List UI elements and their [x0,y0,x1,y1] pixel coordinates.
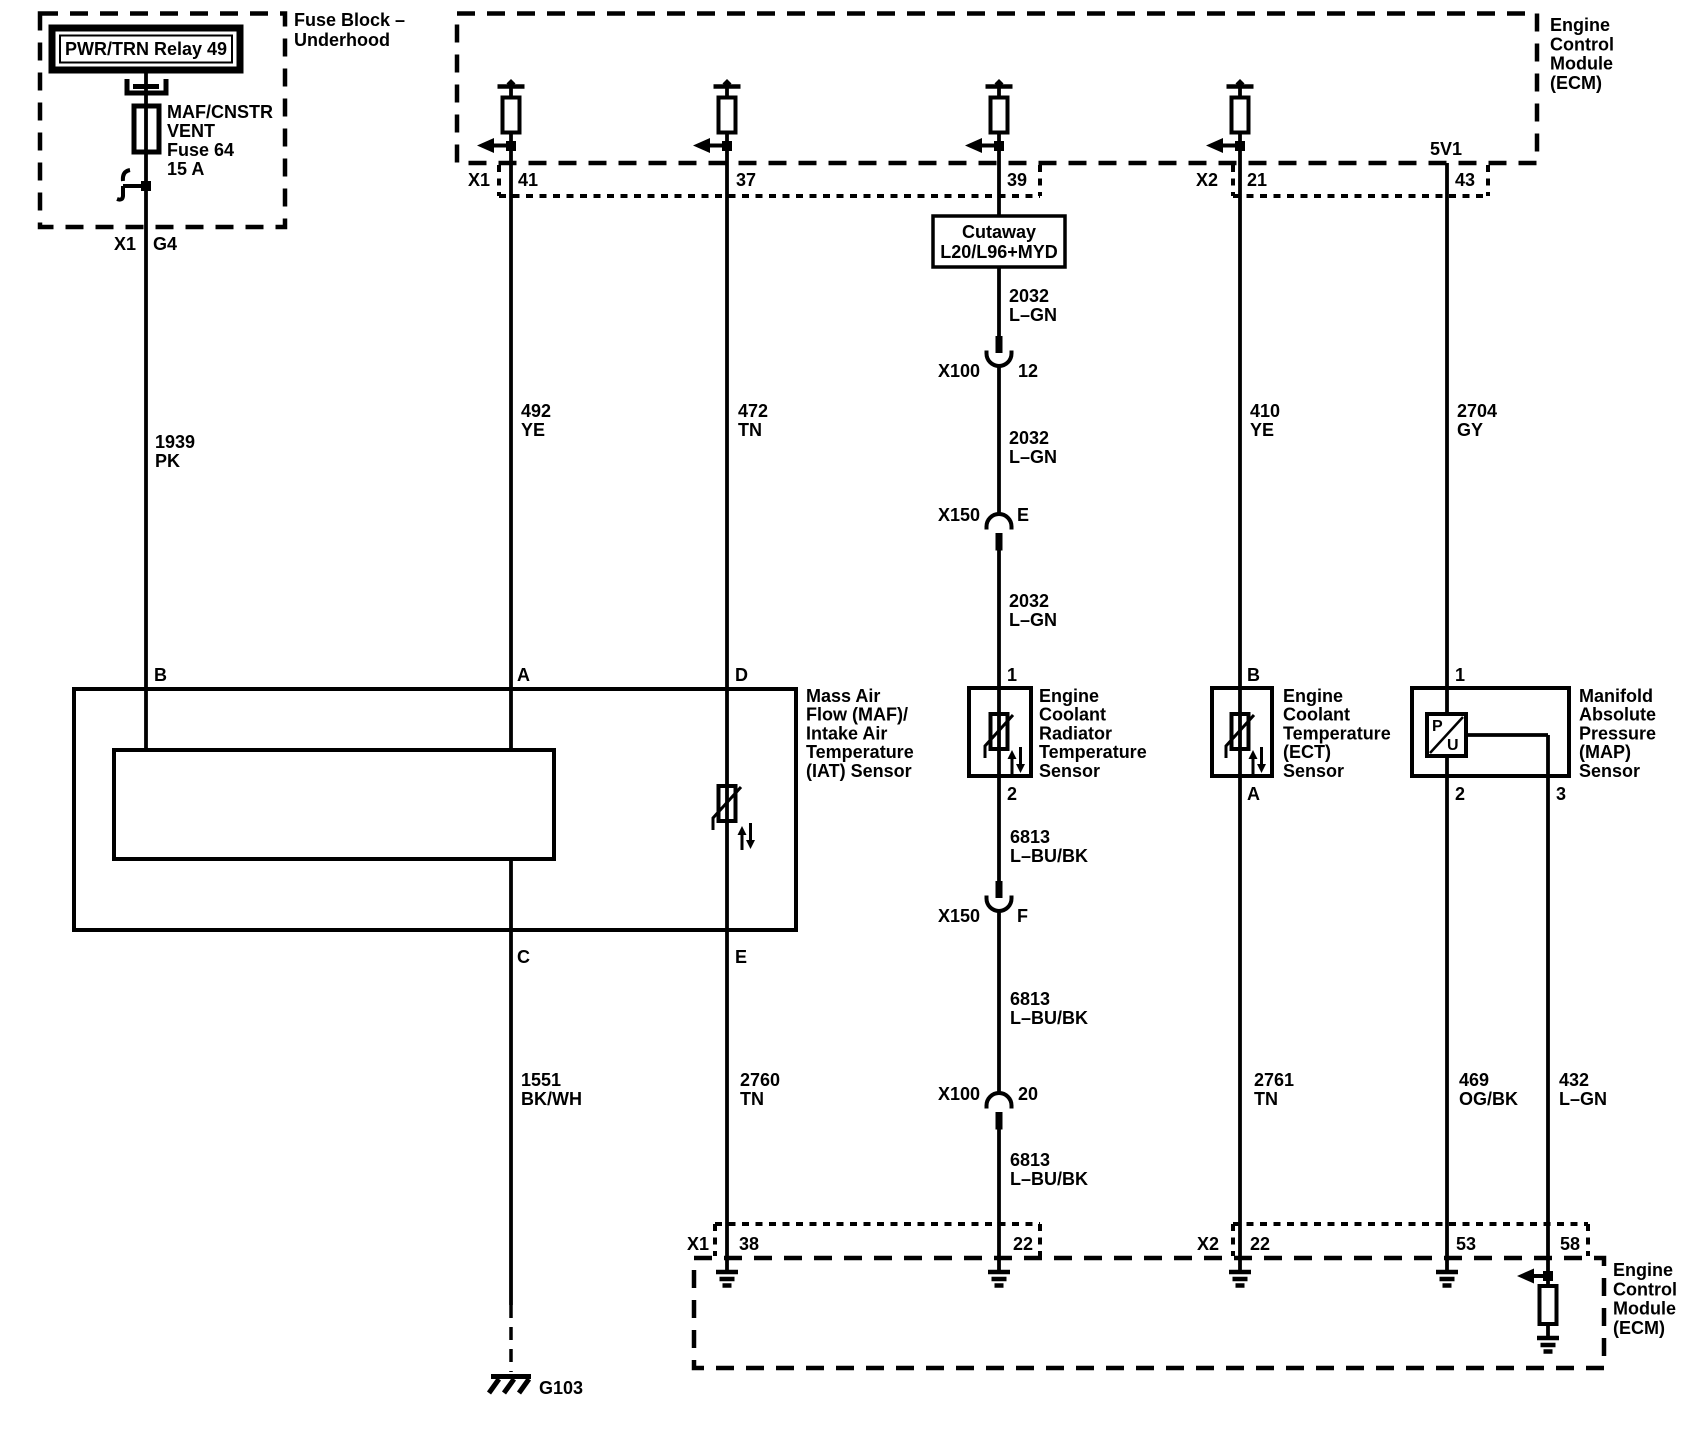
ECM top dashed box: Engine Control Module [457,14,1537,164]
wire 492 YE: ECM pin 41 to MAF pin A [509,200,513,750]
wire: MAP signal to pin 3 [1466,735,1548,776]
svg-text:TN: TN [740,1089,764,1109]
pin label 2 (MAP) [1455,784,1465,804]
wire: IAT element to MAF pin E exit [725,821,729,930]
label: MAF/CNSTR VENT Fuse 64 15 A [167,102,273,179]
label: Engine Control Module (ECM) top right [1550,15,1614,93]
svg-text:410: 410 [1250,401,1280,421]
ECM pin 58 junction dot [1543,1271,1553,1281]
svg-text:X2: X2 [1197,1234,1219,1254]
svg-text:38: 38 [739,1234,759,1254]
svg-text:X1: X1 [687,1234,709,1254]
wire label 2032 L-GN (3) [1009,591,1057,630]
relay switch contact [117,170,151,200]
svg-text:L–BU/BK: L–BU/BK [1010,1169,1088,1189]
svg-text:(IAT) Sensor: (IAT) Sensor [806,761,912,781]
wire label 1939 PK [155,432,195,471]
svg-text:(ECM): (ECM) [1550,73,1602,93]
ECM bottom dashed box: Engine Control Module [694,1258,1604,1368]
wire: relay 49 to coil connector [144,70,148,100]
pin label D [735,665,748,685]
pin label 3 (MAP) [1556,784,1566,804]
svg-text:41: 41 [518,170,538,190]
resistor: ECM pull-up for pin 39 [965,79,1013,153]
relay coil female connector cup [127,79,166,93]
pin label A [517,665,530,685]
svg-text:Temperature: Temperature [1283,723,1391,743]
wire: 1939 PK fuse block to MAF sensor pin B [144,176,148,750]
wire 1551 BK/WH: MAF pin C down [509,859,513,1305]
svg-text:G103: G103 [539,1378,583,1398]
connector pin labels X1 38 22 (bottom) [687,1234,1033,1254]
svg-text:PK: PK [155,451,180,471]
svg-text:6813: 6813 [1010,989,1050,1009]
svg-text:BK/WH: BK/WH [521,1089,582,1109]
thermistor radiator temp element [985,712,1013,758]
svg-text:20: 20 [1018,1084,1038,1104]
svg-text:X150: X150 [938,906,980,926]
resistor: ECM pull-up for pin 21 [1206,79,1254,153]
svg-text:Engine: Engine [1283,686,1343,706]
pin label B [154,665,167,685]
ECT up/down arrows [1249,747,1267,774]
dashed wire to ground G103 [509,1305,513,1372]
ground G103 earth symbol [489,1377,531,1394]
svg-text:L–GN: L–GN [1009,305,1057,325]
wire 2761 TN: ECT pin A to ECM pin 22 (X2) [1238,749,1242,1258]
connector X100 pin 12 [987,336,1012,366]
svg-text:53: 53 [1456,1234,1476,1254]
wire 2760 TN: MAF pin E to ECM pin 38 [725,930,729,1258]
svg-text:2704: 2704 [1457,401,1497,421]
wire 410 YE: ECM pin 21 to ECT pin B [1238,200,1242,714]
svg-text:1939: 1939 [155,432,195,452]
svg-text:MAF/CNSTR: MAF/CNSTR [167,102,273,122]
svg-text:15 A: 15 A [167,159,204,179]
svg-text:B: B [154,665,167,685]
svg-text:43: 43 [1455,170,1475,190]
svg-text:VENT: VENT [167,121,215,141]
wire label 2032 L-GN (1) [1009,286,1057,325]
svg-text:Sensor: Sensor [1039,761,1100,781]
pin label B (ECT) [1247,665,1260,685]
svg-text:Fuse 64: Fuse 64 [167,140,234,160]
relay label box PWR/TRN Relay 49 [52,28,240,70]
svg-text:Coolant: Coolant [1039,705,1106,725]
svg-text:6813: 6813 [1010,1150,1050,1170]
svg-text:472: 472 [738,401,768,421]
svg-text:Temperature: Temperature [806,742,914,762]
svg-text:2032: 2032 [1009,428,1049,448]
wire 6813 L-BU/BK: sensor pin 2 to X150-F [997,749,1001,884]
svg-text:Manifold: Manifold [1579,686,1653,706]
ground: ECM pin 38 [716,1258,738,1286]
label: Engine Coolant Temperature (ECT) Sensor [1283,686,1391,781]
svg-text:432: 432 [1559,1070,1589,1090]
svg-text:D: D [735,665,748,685]
svg-text:G4: G4 [153,234,177,254]
ground: ECM pin 22 X2 [1229,1258,1251,1286]
connector X150 pin F [987,881,1012,911]
wire 472 TN: ECM pin 37 to MAF pin D [725,200,729,788]
Engine Coolant Temperature Sensor box [1212,688,1272,776]
svg-text:22: 22 [1013,1234,1033,1254]
connector X150 pin E [987,514,1012,551]
connector label X100 20 [938,1084,1038,1104]
radiator sensor up/down arrows [1008,747,1026,774]
MAF sensor inner element box [114,750,554,859]
svg-text:2761: 2761 [1254,1070,1294,1090]
svg-text:(ECM): (ECM) [1613,1318,1665,1338]
svg-text:2: 2 [1007,784,1017,804]
wire: pull-up 37 down to connector [725,148,729,200]
connector pin labels X2 22 53 58 (bottom) [1197,1234,1580,1254]
svg-text:C: C [517,947,530,967]
relay coil male pin crossbar [133,84,159,89]
pin label 2 (radiator sensor) [1007,784,1017,804]
node 5V1 label [1430,139,1462,159]
svg-text:L–BU/BK: L–BU/BK [1010,1008,1088,1028]
svg-text:Cutaway: Cutaway [962,222,1036,242]
svg-text:5V1: 5V1 [1430,139,1462,159]
svg-text:Flow (MAF)/: Flow (MAF)/ [806,705,908,725]
svg-text:37: 37 [736,170,756,190]
svg-text:12: 12 [1018,361,1038,381]
svg-text:Temperature: Temperature [1039,742,1147,762]
wire 2032 L-GN: X150-E to radiator temp sensor pin 1 [997,551,1001,715]
thermistor ECT element [1226,712,1254,758]
wire 469 OG/BK: MAP pin 2 to ECM pin 53 [1445,756,1449,1258]
wire: 5V1 to pin 43 [1445,163,1449,200]
wire 2032 L-GN: X100-12 to X150-E [997,366,1001,516]
svg-text:X1: X1 [468,170,490,190]
svg-text:Intake Air: Intake Air [806,723,887,743]
svg-text:1551: 1551 [521,1070,561,1090]
label: Engine Coolant Radiator Temperature Sensor [1039,686,1147,781]
svg-text:GY: GY [1457,420,1483,440]
wire label 2760 TN [740,1070,780,1109]
svg-text:Absolute: Absolute [1579,705,1656,725]
connector label X150 F [938,906,1028,926]
MAF/IAT sensor outer box [74,689,796,930]
svg-text:Module: Module [1550,54,1613,74]
label: Fuse Block - Underhood [294,10,405,50]
wire label 492 YE [521,401,551,440]
svg-text:L–GN: L–GN [1559,1089,1607,1109]
wire 6813 L-BU/BK: X100-20 to ECM pin 22 [997,1130,1001,1259]
connector strip X2-22/53/58 dotted outline (bottom) [1233,1224,1588,1256]
connector strip X1-38/22 dotted outline (bottom) [715,1224,1040,1256]
svg-text:6813: 6813 [1010,827,1050,847]
Manifold Absolute Pressure Sensor box [1412,688,1569,776]
svg-text:L–GN: L–GN [1009,447,1057,467]
wire: pull-up 41 down to connector [509,148,513,200]
svg-text:TN: TN [1254,1089,1278,1109]
resistor: ECM pull-down pin 58 [1540,1276,1557,1338]
wire label 6813 L-BU/BK (3) [1010,1150,1088,1189]
svg-text:(MAP): (MAP) [1579,742,1631,762]
svg-text:2760: 2760 [740,1070,780,1090]
wire 432 L-GN: MAP pin 3 to ECM pin 58 [1546,776,1550,1276]
pin label 1 (MAP) [1455,665,1465,685]
label: Engine Control Module (ECM) bottom right [1613,1260,1677,1338]
svg-text:21: 21 [1247,170,1267,190]
ground: ECM pin 58 pull-down [1537,1338,1559,1352]
svg-text:2032: 2032 [1009,591,1049,611]
Cutaway L20/L96+MYD box [933,216,1065,267]
svg-text:X100: X100 [938,361,980,381]
svg-text:Engine: Engine [1613,1260,1673,1280]
wire 6813 L-BU/BK: X150-F to X100-20 [997,911,1001,1095]
svg-text:(ECT): (ECT) [1283,742,1331,762]
ground: ECM pin 22 [988,1258,1010,1286]
pin label A (ECT) [1247,784,1260,804]
svg-text:Radiator: Radiator [1039,723,1112,743]
ground: ECM pin 53 [1436,1258,1458,1286]
wire label 1551 BK/WH [521,1070,582,1109]
svg-text:YE: YE [1250,420,1274,440]
pin label E [735,947,747,967]
svg-text:Engine: Engine [1550,15,1610,35]
svg-text:TN: TN [738,420,762,440]
svg-text:Module: Module [1613,1299,1676,1319]
svg-text:1: 1 [1007,665,1017,685]
svg-text:E: E [735,947,747,967]
svg-text:Mass Air: Mass Air [806,686,880,706]
connector label X1 G4 [114,234,177,254]
label G103 [539,1378,583,1398]
wire label 6813 L-BU/BK (2) [1010,989,1088,1028]
thermistor IAT element [713,784,741,830]
svg-text:Control: Control [1550,34,1614,54]
wire label 2032 L-GN (2) [1009,428,1057,467]
svg-text:OG/BK: OG/BK [1459,1089,1518,1109]
svg-text:Fuse Block –: Fuse Block – [294,10,405,30]
svg-text:Coolant: Coolant [1283,705,1350,725]
connector pin labels X2 21 43 [1196,170,1475,190]
connector label X100 12 [938,361,1038,381]
svg-text:A: A [1247,784,1260,804]
svg-text:Sensor: Sensor [1283,761,1344,781]
svg-text:U: U [1447,737,1459,754]
label: Mass Air Flow (MAF)/ Intake Air Temperature (IAT) Sensor [806,686,914,781]
svg-text:X1: X1 [114,234,136,254]
svg-text:469: 469 [1459,1070,1489,1090]
connector pin labels X1 41 37 39 [468,170,1027,190]
wire: pull-up 21 down to connector [1238,148,1242,200]
svg-text:Pressure: Pressure [1579,723,1656,743]
wire label 6813 L-BU/BK (1) [1010,827,1088,866]
svg-text:2: 2 [1455,784,1465,804]
svg-text:X100: X100 [938,1084,980,1104]
IAT up/down arrows [738,823,756,850]
svg-text:1: 1 [1455,665,1465,685]
label: Manifold Absolute Pressure (MAP) Sensor [1579,686,1656,781]
ECM pin 58 arrow [1517,1269,1548,1284]
svg-text:L–BU/BK: L–BU/BK [1010,846,1088,866]
connector X100 pin 20 [987,1093,1012,1130]
svg-text:492: 492 [521,401,551,421]
wire label 469 OG/BK [1459,1070,1518,1109]
wire label 410 YE [1250,401,1280,440]
wire label 2761 TN [1254,1070,1294,1109]
MAP P/U transducer square [1427,714,1466,756]
svg-text:22: 22 [1250,1234,1270,1254]
svg-text:YE: YE [521,420,545,440]
wire 2032 L-GN: cutaway to X100 [997,267,1001,340]
svg-text:F: F [1017,906,1028,926]
resistor: ECM pull-up for pin 37 [693,79,741,153]
svg-text:P: P [1432,718,1443,735]
svg-text:E: E [1017,505,1029,525]
svg-text:Engine: Engine [1039,686,1099,706]
svg-text:3: 3 [1556,784,1566,804]
wire label 472 TN [738,401,768,440]
svg-text:L–GN: L–GN [1009,610,1057,630]
svg-text:A: A [517,665,530,685]
svg-text:X150: X150 [938,505,980,525]
connector label X150 E [938,505,1029,525]
svg-text:58: 58 [1560,1234,1580,1254]
svg-text:B: B [1247,665,1260,685]
pin label 1 (radiator sensor) [1007,665,1017,685]
resistor: ECM pull-up for pin 41 [477,79,525,153]
svg-text:39: 39 [1007,170,1027,190]
svg-text:X2: X2 [1196,170,1218,190]
fuse 64 MAF/CNSTR VENT 15 A [134,100,159,176]
connector strip X1 dotted outline [499,165,1040,196]
wire 2704 GY: ECM pin 43 to MAP pin 1 [1445,200,1449,714]
Engine Coolant Radiator Temperature Sensor box [969,688,1031,776]
svg-text:Sensor: Sensor [1579,761,1640,781]
fuse block dashed box: Fuse Block - Underhood [40,14,285,228]
svg-text:PWR/TRN Relay 49: PWR/TRN Relay 49 [65,39,227,59]
svg-text:L20/L96+MYD: L20/L96+MYD [940,242,1058,262]
pin label C [517,947,530,967]
connector strip X2 dotted outline [1233,165,1488,196]
svg-text:Control: Control [1613,1279,1677,1299]
svg-text:Underhood: Underhood [294,30,390,50]
wire label 432 L-GN [1559,1070,1607,1109]
wire: pull-up 39 down to connector [997,148,1001,216]
svg-text:2032: 2032 [1009,286,1049,306]
wire label 2704 GY [1457,401,1497,440]
